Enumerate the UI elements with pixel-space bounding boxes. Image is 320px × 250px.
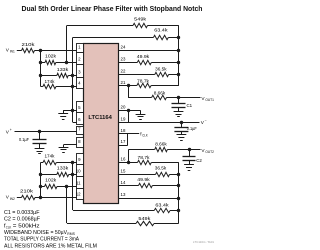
resistor 210k (ch2 input) [22, 195, 36, 199]
svg-text:LTC1164: LTC1164 [88, 115, 112, 121]
wire 63.4k rail top right [168, 37, 179, 39]
node bus tap pin10 [39, 173, 42, 176]
wire input bus vertical [40, 50, 42, 86]
wire 549k rail top right [148, 25, 179, 27]
resistor 549k (ch2 feedback) [136, 221, 154, 225]
svg-text:16: 16 [121, 157, 126, 162]
node C1 tap [177, 96, 180, 99]
wire pin 13 to bus [119, 198, 179, 200]
wire R210k to pin 1 [35, 50, 77, 52]
svg-text:24: 24 [121, 44, 126, 49]
wire R78.7k to bus [151, 85, 179, 87]
wire pin 16 to R78.7k [119, 162, 138, 164]
wire bus to R102k [40, 62, 45, 64]
ground at pin 8 [63, 145, 65, 148]
wire pin 17 stub [119, 145, 128, 147]
node junction VIN1 bus [39, 49, 42, 52]
svg-text:IN1: IN1 [10, 49, 15, 53]
node right bus / pin23 wire [177, 61, 180, 64]
svg-text:CLK: CLK [6, 225, 12, 229]
wire R174k to pin 4 [56, 86, 77, 88]
resistor 8.66k (ch2 output) [155, 147, 168, 151]
wire right bus top [178, 26, 180, 86]
ground below C1 [178, 107, 180, 111]
svg-text:IN2: IN2 [10, 197, 15, 201]
svg-text:549k: 549k [138, 216, 151, 221]
node right bus / pin24 wire [177, 49, 180, 52]
wire pin 22 to R36.5k [119, 74, 155, 76]
wire 549k feedback vertical left [66, 26, 68, 63]
node 63.4k bus joins pin10 wire [71, 173, 74, 176]
svg-text:OUT1: OUT1 [205, 98, 214, 102]
resistor 133k (ch2) [57, 172, 69, 176]
svg-text:49.9k: 49.9k [137, 54, 150, 59]
wire 63.4k rail top left [73, 37, 153, 39]
wire V+ to pin 7 [15, 131, 77, 133]
node output branch ch1 [127, 84, 130, 87]
svg-text:36.5k: 36.5k [155, 67, 167, 72]
svg-text:TOTAL SUPPLY CURRENT = 3mA: TOTAL SUPPLY CURRENT = 3mA [4, 237, 79, 243]
resistor 49.9k (ch2) [139, 183, 153, 187]
svg-text:+: + [10, 128, 12, 132]
svg-text:C2: C2 [196, 158, 202, 163]
node 63.4k bus joins pin3 wire [71, 74, 74, 77]
pin box 4 [77, 78, 84, 89]
wire 63.4k feedback vertical left [72, 37, 74, 122]
resistor 78.7k (ch2) [138, 160, 152, 164]
svg-text:133k: 133k [57, 166, 69, 171]
capacitor 0.1uF (V+ bypass) [39, 132, 41, 140]
wire 63.4k feedback vertical left ch2 [72, 163, 74, 210]
svg-text:78.7k: 78.7k [137, 78, 150, 83]
svg-text:49.9k: 49.9k [137, 177, 150, 182]
wire pin 23 to R49.9k [119, 62, 137, 64]
pin box 5 [77, 102, 84, 113]
wire 549k feedback vertical left ch2 [66, 186, 68, 223]
wire 549k rail top left [67, 25, 133, 27]
wire R210k to pin 12 [35, 197, 77, 199]
node V+ bypass tap [38, 130, 41, 133]
svg-text:78.7k: 78.7k [138, 155, 151, 160]
wire bus to R174k [40, 86, 43, 88]
wire 63.4k rail bottom right [170, 210, 179, 212]
node V- bypass tap [180, 121, 183, 124]
resistor 102k (ch1) [45, 60, 56, 64]
svg-text:OUT2: OUT2 [205, 150, 214, 154]
wire output branch vertical ch1 [128, 86, 130, 98]
node right bus / 63.4k rail ch2 [177, 209, 180, 212]
wire 549k rail bottom left [67, 223, 136, 225]
wire pin 15 to R36.5k [119, 174, 156, 176]
svg-text:63.4k: 63.4k [155, 202, 169, 207]
wire pin 5 stub [63, 110, 77, 112]
wire branch to R8.66k ch2 [128, 149, 154, 151]
svg-text:210k: 210k [22, 42, 36, 47]
wire R36.5k to bus [169, 74, 179, 76]
pin box 11 [77, 177, 84, 189]
svg-text:174k: 174k [45, 79, 56, 84]
svg-text:17: 17 [121, 139, 126, 144]
resistor 133k (ch1) [57, 73, 68, 77]
wire pin 24 to bus [119, 50, 179, 52]
wire 63.4k rail bottom left [73, 210, 154, 212]
svg-text:0.1µF: 0.1µF [19, 137, 29, 142]
svg-text:12: 12 [76, 192, 81, 197]
pin box 10 [77, 165, 84, 177]
ground at pin 20 [140, 110, 142, 114]
svg-text:8.66k: 8.66k [155, 142, 167, 147]
svg-text:C1 = 0.0033µF: C1 = 0.0033µF [4, 210, 40, 216]
node right bus / pin14 wire [177, 184, 180, 187]
wire pin 21 to R78.7k [119, 85, 137, 87]
wire R133k to pin 3 [68, 75, 77, 77]
wire bus to R102k ch2 [40, 186, 44, 188]
svg-text:23: 23 [121, 56, 126, 61]
wire bus to R133k ch2 [40, 174, 56, 176]
ground below V- bypass cap [181, 131, 183, 135]
capacitor C1 [178, 98, 180, 103]
pin box 8 [77, 138, 84, 148]
pin box 2 [77, 53, 84, 65]
wire branch to R8.66k ch1 [128, 97, 151, 99]
node 549k feedback joins pin11 wire [65, 185, 68, 188]
svg-text:11: 11 [76, 181, 81, 186]
svg-text:C1: C1 [187, 103, 193, 108]
svg-text:549k: 549k [134, 17, 147, 22]
svg-text:8.66k: 8.66k [154, 90, 166, 95]
svg-text:0.1µF: 0.1µF [187, 126, 197, 131]
node right bus / 63.4k rail [177, 36, 180, 39]
svg-text:LTC1164 • TA01: LTC1164 • TA01 [193, 240, 214, 244]
wire bus to R174k ch2 [40, 162, 43, 164]
resistor 210k (ch1 input) [22, 48, 35, 52]
resistor 549k (ch1 feedback) [133, 23, 148, 27]
wire bus to R133k [40, 75, 56, 77]
svg-text:133k: 133k [57, 67, 69, 72]
wire 549k rail bottom right [154, 223, 179, 225]
pin box 7 [77, 127, 84, 135]
resistor 174k (ch2) [43, 160, 56, 164]
op-amp U1 LTC1164 body [84, 44, 119, 204]
svg-text:20: 20 [121, 105, 126, 110]
node junction VIN2 bus [39, 196, 42, 199]
resistor 8.66k (ch1 output) [152, 95, 167, 99]
svg-text:10: 10 [76, 169, 81, 174]
svg-text:−: − [205, 119, 207, 123]
svg-text:174k: 174k [45, 154, 56, 159]
svg-text:= 500kHz: = 500kHz [13, 223, 40, 229]
wire pin 19 to V- [119, 122, 200, 124]
svg-text:Dual 5th Order Linear Phase Fi: Dual 5th Order Linear Phase Filter with … [22, 4, 203, 13]
node right bus / pin13 wire [177, 197, 180, 200]
resistor 49.9k (ch1) [137, 60, 151, 64]
svg-text:21: 21 [121, 80, 126, 85]
resistor 63.4k (ch1 feedback) [153, 35, 168, 39]
capacitor 0.1uF (V- bypass) [181, 122, 183, 127]
node bus tap pin2 [39, 61, 42, 64]
wire pin 18 fCLK stub [119, 133, 139, 135]
svg-text:36.5k: 36.5k [155, 166, 167, 171]
pin box 12 [77, 189, 84, 200]
resistor 63.4k (ch2 feedback) [154, 208, 170, 212]
wire R133k to pin 10 [69, 174, 77, 176]
resistor 36.5k (ch1) [155, 72, 169, 76]
wire pin 14 to R49.9k [119, 185, 139, 187]
wire R78.7k to bus ch2 [151, 162, 179, 164]
resistor 174k (ch1) [43, 84, 56, 88]
wire pin 8 stub [64, 144, 77, 146]
wire pin 20 stub [119, 110, 141, 112]
node bus tap pin11 [39, 185, 42, 188]
svg-text:15: 15 [121, 169, 126, 174]
svg-text:19: 19 [121, 117, 126, 122]
svg-text:210k: 210k [20, 189, 34, 194]
svg-text:ALL RESISTORS ARE 1% METAL FIL: ALL RESISTORS ARE 1% METAL FILM [4, 243, 97, 249]
wire VIN1 to R 210k [17, 50, 22, 52]
ground below C2 [189, 161, 191, 165]
svg-text:WIDEBAND NOISE = 50µV: WIDEBAND NOISE = 50µV [4, 230, 67, 236]
wire pin 6 stub [73, 122, 77, 124]
resistor 78.7k (ch1) [137, 83, 151, 87]
wire pin18-pin17 link [127, 134, 129, 145]
svg-text:63.4k: 63.4k [154, 28, 168, 33]
pin box 9 [77, 154, 84, 165]
node 63.4k bus joins pin5 wire [71, 109, 74, 112]
ground at pin 5 [63, 110, 65, 113]
wire R174k to pin 9 [56, 162, 77, 164]
wire output branch vertical ch2 [128, 150, 130, 163]
node C2 tap [188, 148, 191, 151]
node 549k feedback joins pin2 wire [65, 61, 68, 64]
pin box 1 [77, 44, 84, 53]
wire R49.9k to bus [151, 62, 179, 64]
wire R8.66k to VOUT2 [167, 149, 200, 151]
node output branch crosses pin20 wire [127, 109, 130, 112]
ground below V+ bypass cap [39, 144, 41, 149]
node right bus / pin15 wire [177, 173, 180, 176]
wire R102k to pin 2 [56, 62, 77, 64]
svg-text:CLK: CLK [142, 133, 148, 137]
wire R8.66k to VOUT1 [167, 97, 201, 99]
svg-text:C2 = 0.0068µF: C2 = 0.0068µF [4, 217, 41, 223]
pin box 3 [77, 65, 84, 78]
wire R102k to pin 11 [57, 186, 77, 188]
wire R49.9k to bus ch2 [152, 185, 178, 187]
wire VIN2 to R 210k ch2 [17, 197, 22, 199]
resistor 102k (ch2) [45, 184, 58, 188]
svg-text:13: 13 [121, 192, 126, 197]
wire right bus bottom [178, 163, 180, 224]
svg-text:18: 18 [121, 128, 126, 133]
wire R36.5k to bus ch2 [170, 174, 179, 176]
node 63.4k bus joins pin9 wire [71, 161, 74, 164]
node 63.4k bus joins pin4 wire [71, 85, 74, 88]
svg-text:102k: 102k [45, 54, 57, 59]
capacitor C2 [189, 150, 191, 157]
wire input bus vertical ch2 [40, 163, 42, 198]
node right bus / pin22 wire [177, 73, 180, 76]
resistor 36.5k (ch2) [156, 172, 170, 176]
wire pin20-pin19 link [128, 110, 130, 122]
pin box 6 [77, 113, 84, 125]
node output branch ch2 [127, 161, 130, 164]
node bus tap pin3 [39, 74, 42, 77]
svg-text:RMS: RMS [67, 232, 75, 236]
svg-text:14: 14 [121, 180, 126, 185]
svg-text:22: 22 [121, 69, 126, 74]
svg-text:102k: 102k [45, 177, 57, 182]
